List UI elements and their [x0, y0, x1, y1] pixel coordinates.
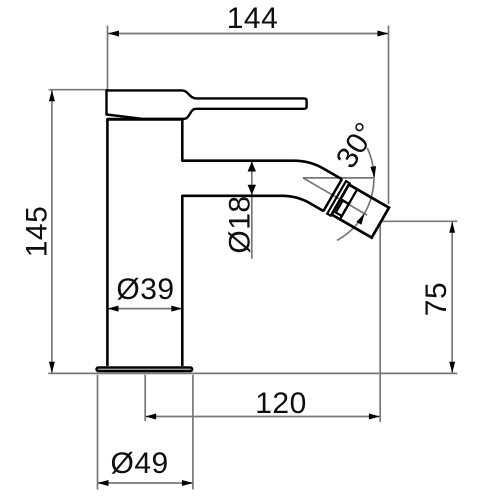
arrow 144 right	[377, 31, 388, 37]
spout end edge	[323, 179, 342, 211]
arrow 120 left	[145, 414, 156, 420]
arrow d39 left	[108, 306, 119, 312]
body right edge upper	[181, 119, 184, 162]
svg-text:120: 120	[255, 387, 307, 420]
extension line d49 right	[192, 375, 194, 490]
extension line d49 left	[97, 375, 99, 490]
arrow d18 up	[248, 162, 256, 172]
svg-text:144: 144	[227, 2, 279, 35]
arrow arc bottom	[356, 213, 364, 224]
body left edge	[106, 119, 109, 366]
arrow d49 left	[98, 480, 109, 486]
svg-text:145: 145	[21, 206, 54, 258]
arrow 145 top	[49, 90, 55, 101]
base plate	[97, 368, 193, 371]
angle ray horizontal	[303, 177, 374, 179]
mounting surface line	[48, 372, 457, 374]
svg-text:Ø18: Ø18	[224, 195, 257, 253]
dimension line 75	[451, 222, 453, 373]
spout top edge	[182, 161, 342, 180]
collar ring	[327, 181, 349, 216]
dimension line d49	[98, 482, 193, 484]
cap inner edge	[340, 189, 357, 219]
arrow d18 down	[248, 185, 256, 195]
arrow d49 right	[182, 480, 193, 486]
extension line 75 top	[381, 220, 457, 222]
dimension line 144	[108, 33, 388, 35]
arrow 75 top	[449, 222, 455, 233]
body top edge	[107, 118, 184, 121]
aerator cap	[332, 185, 389, 238]
svg-text:Ø39: Ø39	[116, 273, 174, 306]
extension line 145 top	[49, 89, 109, 91]
extension line 144 left	[107, 26, 109, 90]
angle ray spout axis	[303, 178, 367, 215]
angle arc 30	[337, 148, 374, 240]
dimension line 145	[51, 90, 53, 373]
extension line 120 centre	[144, 375, 146, 421]
extension line 144 right	[388, 26, 390, 205]
arrow 120 right	[369, 414, 380, 420]
dimension line d18	[251, 161, 253, 259]
arrow arc top	[370, 166, 376, 178]
arrow d39 right	[171, 306, 182, 312]
dimension line 120	[145, 416, 380, 418]
handle lever	[107, 90, 307, 119]
spout bottom edge	[182, 196, 324, 212]
spout end assembly rotated 30deg	[323, 179, 390, 239]
arrow 144 left	[108, 31, 119, 37]
svg-text:75: 75	[420, 282, 453, 316]
svg-text:Ø49: Ø49	[110, 447, 168, 480]
dimension line d39	[108, 308, 183, 310]
aerator insert box	[336, 200, 349, 216]
arrow 75 bottom	[449, 362, 455, 373]
body right edge lower	[181, 195, 184, 366]
extension line 120 right	[379, 222, 381, 422]
arrow 145 bottom	[49, 362, 55, 373]
